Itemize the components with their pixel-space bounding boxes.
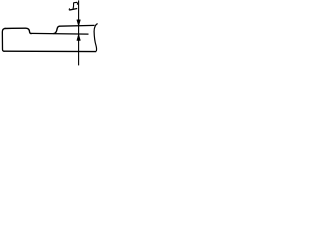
- step up to plateau (rounded ramp): [54, 26, 60, 33]
- h label: hump connector stroke: [72, 3, 75, 9]
- upper surface line (left level): [5, 27, 27, 29]
- bottom outline of part: [4, 50, 97, 52]
- dimension label h (italic, rotated 90 CCW): stem stroke: [69, 9, 77, 11]
- h label: hump top stroke: [73, 1, 77, 4]
- lower surface line + thin extension reference line: [31, 32, 89, 35]
- h label: stem start serif: [68, 8, 70, 10]
- right break line (freehand edge of part): [94, 24, 98, 52]
- step down (rounded): [26, 28, 32, 34]
- arrowhead pointing up at reference line: [77, 34, 81, 40]
- plateau top line (also extension line for dimension): [59, 24, 95, 27]
- h label: hump foot serif: [76, 2, 78, 4]
- arrowhead pointing down at plateau line: [77, 20, 81, 26]
- left break line (freehand edge of part): [2, 28, 5, 51]
- dimension line (vertical): [78, 0, 80, 65]
